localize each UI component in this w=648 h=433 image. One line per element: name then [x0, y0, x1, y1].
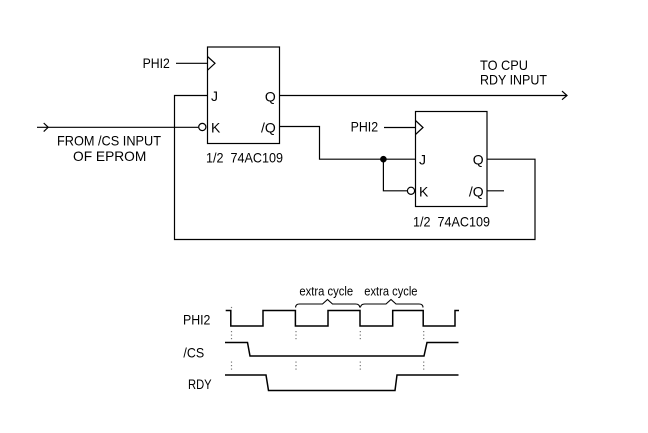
- svg-text:/CS: /CS: [183, 345, 204, 361]
- svg-text:1/2 74AC109: 1/2 74AC109: [413, 214, 490, 230]
- svg-text:K: K: [419, 183, 429, 199]
- svg-text:J: J: [419, 151, 426, 167]
- svg-text:OF EPROM: OF EPROM: [73, 148, 146, 164]
- svg-text:PHI2: PHI2: [351, 118, 379, 134]
- svg-text:extra cycle: extra cycle: [364, 284, 417, 299]
- svg-text:1/2 74AC109: 1/2 74AC109: [206, 149, 283, 165]
- svg-text:RDY: RDY: [188, 376, 212, 392]
- svg-text:TO CPU: TO CPU: [480, 57, 528, 73]
- svg-text:K: K: [211, 119, 221, 135]
- svg-text:extra cycle: extra cycle: [299, 284, 353, 299]
- svg-text:J: J: [211, 88, 218, 104]
- svg-text:Q: Q: [265, 88, 276, 104]
- svg-text:FROM /CS INPUT: FROM /CS INPUT: [57, 132, 161, 148]
- svg-text:/Q: /Q: [469, 184, 484, 200]
- svg-text:/Q: /Q: [261, 120, 276, 136]
- svg-text:Q: Q: [473, 152, 484, 168]
- svg-text:RDY INPUT: RDY INPUT: [480, 72, 547, 88]
- svg-text:PHI2: PHI2: [183, 311, 211, 327]
- svg-text:PHI2: PHI2: [143, 55, 170, 71]
